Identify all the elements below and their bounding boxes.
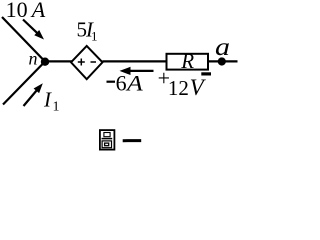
- caption glyph 一 (drawn): [123, 139, 142, 142]
- wire lower-left diagonal lead into node n: [3, 62, 45, 105]
- svg-text:10: 10: [6, 0, 28, 22]
- wire upper-left diagonal lead into node n: [2, 17, 45, 62]
- svg-text:V: V: [190, 75, 207, 100]
- wire resistor to node a: [208, 60, 238, 62]
- wire node n to dependent source: [45, 60, 72, 62]
- wire dependent source to resistor: [103, 60, 168, 62]
- svg-text:12: 12: [168, 76, 189, 100]
- node a (terminal dot): [218, 57, 226, 65]
- minus sign inside source: [91, 61, 97, 63]
- caption glyph 圖 (drawn): [100, 130, 115, 150]
- svg-text:1: 1: [53, 100, 60, 115]
- svg-text:I: I: [43, 88, 52, 112]
- plus sign inside source: [78, 59, 85, 66]
- svg-text:R: R: [180, 49, 194, 73]
- svg-text:A: A: [125, 72, 143, 96]
- svg-text:a: a: [215, 32, 230, 60]
- minus sign (voltage polarity right of R): [201, 72, 211, 75]
- current arrow for I1: [24, 83, 43, 106]
- current arrow for 10 A source: [23, 20, 44, 40]
- label -6 A: [107, 81, 116, 83]
- svg-text:1: 1: [91, 29, 98, 44]
- resistor R (box): [167, 54, 209, 70]
- svg-text:6: 6: [116, 71, 127, 96]
- svg-text:n: n: [29, 49, 38, 69]
- label a: [215, 32, 230, 60]
- current arrow -6 A (pointing left): [120, 67, 154, 75]
- svg-text:A: A: [30, 0, 46, 22]
- dependent voltage source 5I1 (diamond): [71, 46, 103, 79]
- node n (junction dot): [41, 58, 49, 66]
